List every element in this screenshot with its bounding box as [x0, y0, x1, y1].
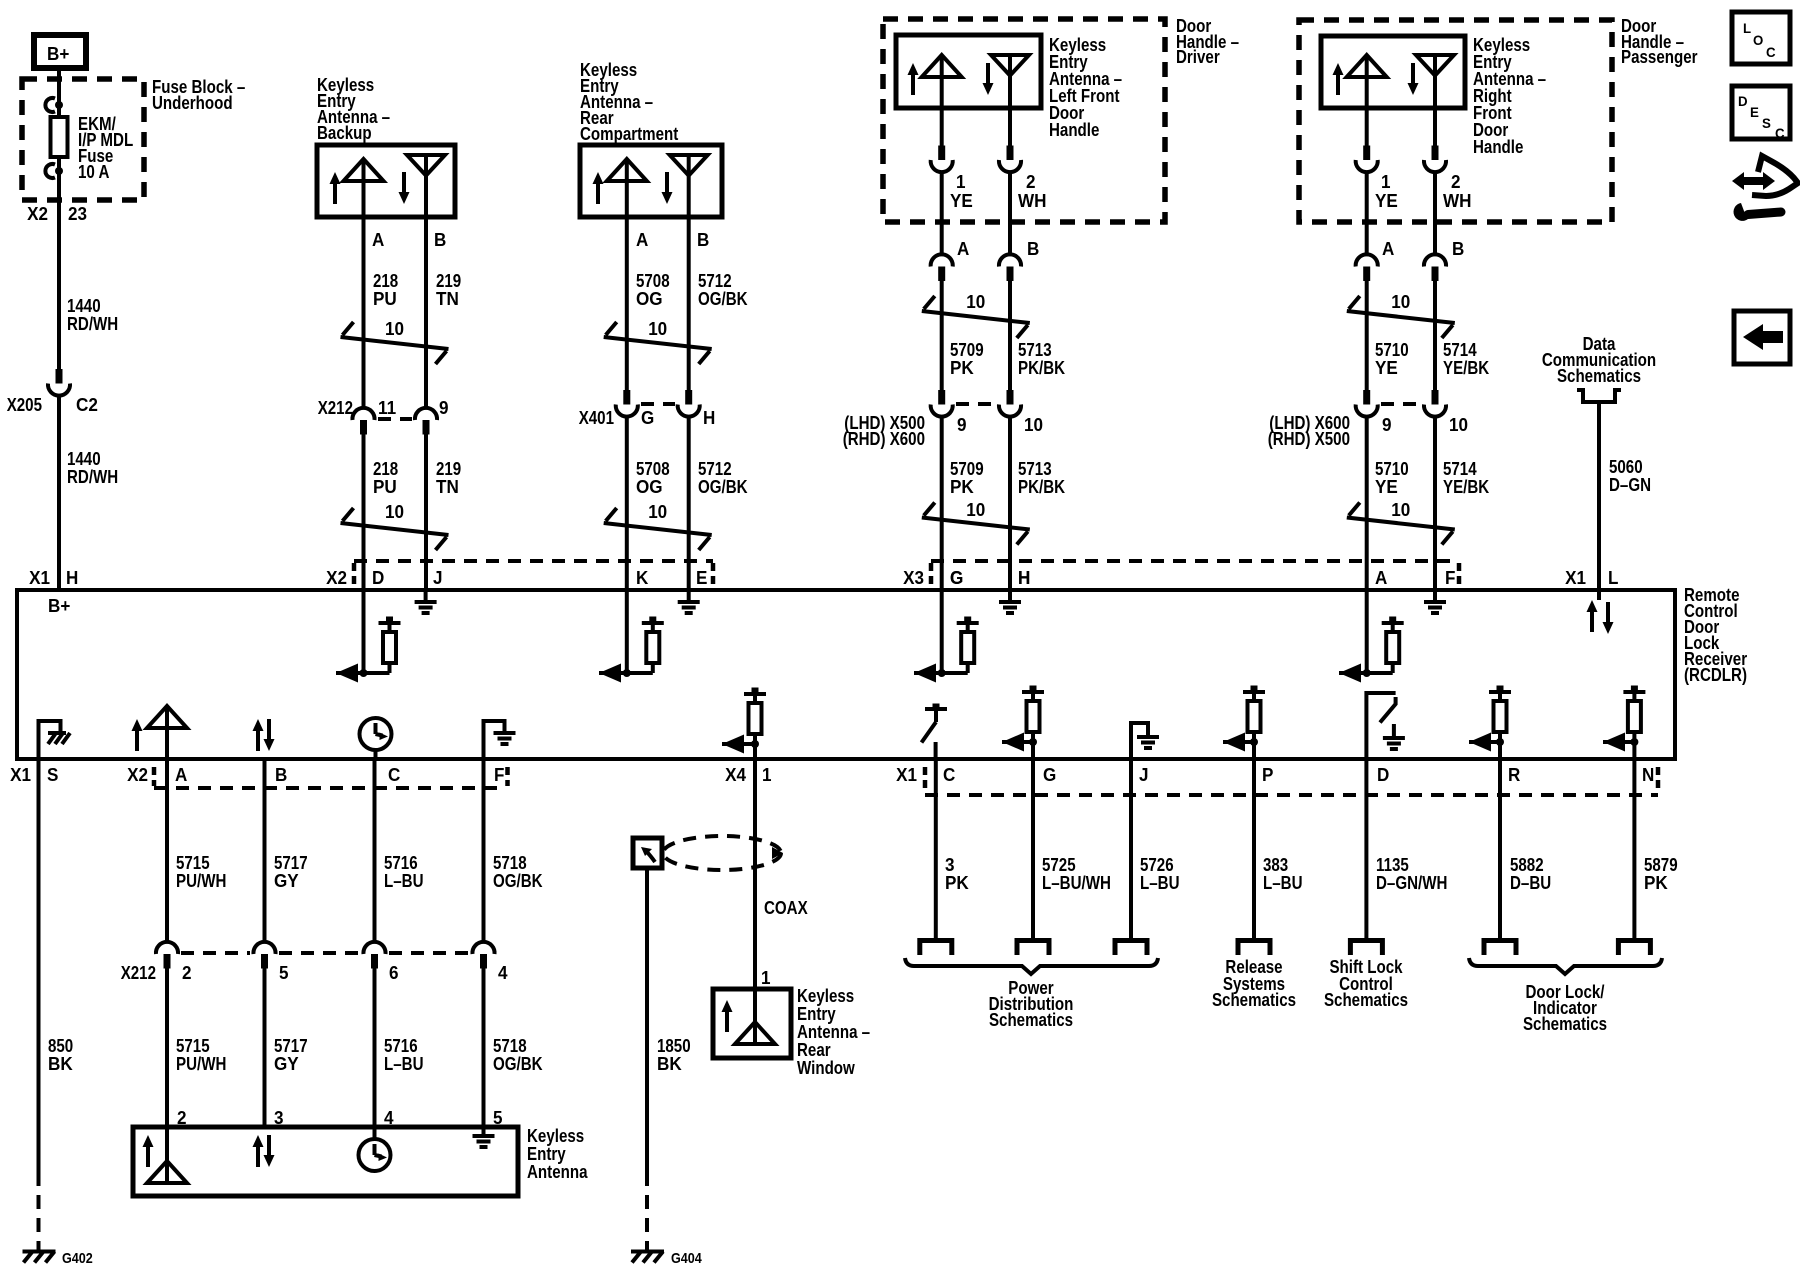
- svg-text:1: 1: [1381, 172, 1391, 192]
- svg-text:X4: X4: [725, 765, 746, 785]
- wire 219 TN: [424, 217, 428, 409]
- svg-text:GY: GY: [274, 1054, 299, 1074]
- svg-text:L: L: [1608, 568, 1618, 588]
- wire label 850 BK: [48, 1036, 73, 1074]
- svg-text:G404: G404: [671, 1250, 702, 1267]
- svg-text:Antenna –: Antenna –: [797, 1022, 870, 1042]
- svg-text:X1: X1: [29, 568, 50, 588]
- coax shield dashed ellipse: [663, 836, 783, 870]
- pin label X1 L: [1565, 568, 1618, 588]
- door handle driver dashed box: [883, 19, 1165, 222]
- fuse block name label: [152, 77, 245, 113]
- wire label 3 PK: [945, 855, 969, 893]
- svg-text:OG: OG: [636, 477, 663, 497]
- internal switch to ground at pin D: [1366, 693, 1405, 759]
- wire color labels YE WH: [950, 191, 1047, 211]
- antenna box pin labels 2 3 4 5: [177, 1108, 503, 1128]
- wire label 218 PU: [373, 459, 398, 497]
- svg-text:PU: PU: [373, 289, 397, 309]
- twisted pair marker 10: [922, 292, 1030, 338]
- wire label 5060 D-GN: [1609, 457, 1651, 495]
- keyless entry antenna right front door handle label: [1473, 35, 1546, 157]
- svg-text:3: 3: [945, 855, 955, 875]
- wire color labels YE WH: [1375, 191, 1472, 211]
- terminal 1135: [1350, 941, 1382, 956]
- keyless entry antenna label: [527, 1126, 588, 1182]
- svg-text:O: O: [1753, 32, 1763, 48]
- svg-text:Schematics: Schematics: [1523, 1014, 1607, 1034]
- keyless entry antenna rear window label: [797, 986, 870, 1078]
- svg-text:Schematics: Schematics: [989, 1010, 1073, 1030]
- svg-text:G: G: [641, 408, 654, 428]
- pin label X1 H: [29, 568, 78, 588]
- svg-text:X1: X1: [1565, 568, 1586, 588]
- svg-text:B: B: [275, 765, 287, 785]
- pin labels A F: [1375, 568, 1455, 588]
- svg-text:L–BU: L–BU: [1263, 873, 1303, 893]
- svg-text:10: 10: [385, 502, 404, 522]
- wire label 1440 RD/WH: [67, 296, 118, 334]
- svg-text:L–BU: L–BU: [384, 1054, 424, 1074]
- svg-text:X401: X401: [579, 408, 614, 428]
- wire 2 WH: [1008, 108, 1012, 147]
- svg-text:OG/BK: OG/BK: [698, 477, 748, 497]
- svg-text:4: 4: [498, 963, 508, 983]
- data communication schematics label: [1542, 334, 1656, 386]
- receive antenna symbol: [407, 155, 445, 217]
- wire label 5718 OG/BK: [493, 853, 543, 891]
- svg-text:TN: TN: [436, 477, 459, 497]
- svg-text:5717: 5717: [274, 1036, 308, 1056]
- transmit arrow: [908, 63, 919, 95]
- svg-text:PK/BK: PK/BK: [1018, 477, 1065, 497]
- svg-text:A: A: [175, 765, 187, 785]
- svg-text:S: S: [47, 765, 58, 785]
- svg-text:Compartment: Compartment: [580, 124, 678, 144]
- svg-text:10: 10: [385, 319, 404, 339]
- svg-text:BK: BK: [48, 1054, 73, 1074]
- svg-text:PU/WH: PU/WH: [176, 871, 226, 891]
- svg-text:2: 2: [1451, 172, 1461, 192]
- svg-text:A: A: [372, 230, 384, 250]
- svg-text:B: B: [697, 230, 709, 250]
- wire label 5882 D-BU: [1510, 855, 1551, 893]
- internal transmit antenna at pin A: [132, 706, 188, 759]
- svg-text:5714: 5714: [1443, 459, 1477, 479]
- bottom pin labels X2 A B C F: [127, 765, 504, 785]
- svg-text:COAX: COAX: [764, 898, 808, 918]
- svg-text:X2: X2: [127, 765, 148, 785]
- wire 5715 PU/WH: [165, 759, 169, 943]
- svg-text:10: 10: [1449, 415, 1468, 435]
- svg-text:E: E: [696, 568, 707, 588]
- wire label 5713 PK/BK: [1018, 340, 1065, 378]
- svg-text:10: 10: [1024, 415, 1043, 435]
- schematic usage icon: [1732, 156, 1798, 221]
- wire label 5716 L-BU: [384, 853, 424, 891]
- wire 5708 OG: [625, 217, 629, 391]
- svg-text:Schematics: Schematics: [1324, 990, 1408, 1010]
- svg-text:B+: B+: [48, 596, 70, 616]
- svg-text:YE/BK: YE/BK: [1443, 477, 1489, 497]
- svg-text:10: 10: [966, 292, 985, 312]
- svg-text:1: 1: [761, 968, 771, 988]
- svg-text:X205: X205: [7, 395, 42, 415]
- svg-text:H: H: [703, 408, 715, 428]
- svg-text:G402: G402: [62, 1250, 93, 1267]
- wire label 5715 PU/WH: [176, 1036, 226, 1074]
- twisted pair marker 10: [341, 319, 449, 364]
- internal clock at pin C: [360, 718, 392, 759]
- svg-text:E: E: [1750, 104, 1759, 120]
- wire label 5718 OG/BK: [493, 1036, 543, 1074]
- wire label 5708 OG: [636, 459, 670, 497]
- connector A B: [1356, 239, 1465, 281]
- wire 383 L-BU: [1252, 759, 1256, 938]
- svg-text:9: 9: [1382, 415, 1392, 435]
- transmit antenna symbol: [922, 55, 962, 108]
- keyless entry antenna box: [133, 1127, 518, 1196]
- wire 5726 L-BU: [1129, 759, 1133, 938]
- bottom pin labels X1 S: [10, 765, 58, 785]
- wire label 5714 YE/BK: [1443, 459, 1489, 497]
- pin labels X3 G H A F: [903, 568, 1030, 588]
- svg-text:C: C: [1775, 125, 1785, 141]
- svg-text:10: 10: [648, 319, 667, 339]
- transmit arrow: [1333, 63, 1344, 95]
- svg-text:Passenger: Passenger: [1621, 47, 1698, 67]
- keyless entry antenna backup label: [317, 75, 390, 143]
- svg-text:1: 1: [956, 172, 966, 192]
- svg-text:Handle: Handle: [1473, 137, 1523, 157]
- wire label 5710 YE: [1375, 459, 1409, 497]
- wire label 5716 L-BU: [384, 1036, 424, 1074]
- wire label 5717 GY: [274, 853, 308, 891]
- svg-text:L–BU: L–BU: [1140, 873, 1180, 893]
- svg-text:D: D: [372, 568, 384, 588]
- twisted pair marker 10: [1347, 500, 1455, 545]
- svg-text:C: C: [1766, 44, 1776, 60]
- wire label 5717 GY: [274, 1036, 308, 1074]
- svg-text:Entry: Entry: [527, 1144, 566, 1164]
- LOC navigation box: [1732, 12, 1790, 64]
- svg-text:J: J: [433, 568, 443, 588]
- svg-text:218: 218: [373, 459, 398, 479]
- svg-text:5718: 5718: [493, 853, 527, 873]
- keyless entry antenna left front door handle label: [1049, 35, 1122, 140]
- svg-text:Antenna: Antenna: [527, 1162, 588, 1182]
- svg-text:X2: X2: [326, 568, 347, 588]
- svg-text:10: 10: [1391, 500, 1410, 520]
- connector A B: [931, 239, 1040, 281]
- svg-text:L–BU: L–BU: [384, 871, 424, 891]
- svg-text:218: 218: [373, 271, 398, 291]
- svg-text:N: N: [1642, 765, 1654, 785]
- svg-text:5060: 5060: [1609, 457, 1643, 477]
- DESC navigation box: [1732, 86, 1790, 141]
- keyless entry antenna right front door handle box: [1321, 36, 1465, 108]
- connector pins 1 2: [931, 146, 1036, 193]
- wire label 5714 YE/BK: [1443, 340, 1489, 378]
- svg-text:Handle: Handle: [1049, 120, 1099, 140]
- dashed connector group X3 top: [931, 561, 1459, 585]
- wire 850 BK: [37, 759, 41, 1250]
- svg-text:D: D: [1738, 93, 1748, 109]
- svg-text:5712: 5712: [698, 271, 732, 291]
- svg-text:(RCDLR): (RCDLR): [1684, 665, 1747, 685]
- svg-text:B+: B+: [47, 44, 69, 64]
- svg-text:A: A: [1375, 568, 1387, 588]
- door handle passenger label: [1621, 16, 1698, 67]
- keyless entry antenna rear compartment label: [580, 60, 678, 144]
- svg-text:PU: PU: [373, 477, 397, 497]
- wire 5879 PK: [1632, 759, 1636, 938]
- svg-text:D–BU: D–BU: [1510, 873, 1551, 893]
- svg-text:C2: C2: [76, 395, 98, 415]
- keyless entry antenna left front door handle box: [896, 35, 1041, 108]
- wire label 5725 L-BU/WH: [1042, 855, 1111, 893]
- svg-text:23: 23: [68, 204, 87, 224]
- connector X212 bottom pins 2 5 6 4: [121, 942, 508, 983]
- svg-text:RD/WH: RD/WH: [67, 467, 118, 487]
- fuse EKM/IP MDL 10A: [45, 98, 67, 178]
- svg-text:5708: 5708: [636, 271, 670, 291]
- door lock indicator schematics label: [1523, 982, 1607, 1034]
- connector X500/X600 pins 9 10: [843, 390, 1043, 449]
- svg-text:OG/BK: OG/BK: [493, 871, 543, 891]
- svg-text:K: K: [636, 568, 648, 588]
- svg-text:5717: 5717: [274, 853, 308, 873]
- svg-text:11: 11: [378, 398, 396, 418]
- svg-text:G: G: [950, 568, 963, 588]
- svg-text:383: 383: [1263, 855, 1288, 875]
- internal pull-up resistor at pin A: [1339, 590, 1404, 683]
- receive arrow: [399, 172, 410, 204]
- svg-text:1850: 1850: [657, 1036, 691, 1056]
- svg-text:Rear: Rear: [797, 1040, 831, 1060]
- coax shield connector box: [633, 838, 662, 868]
- svg-text:5714: 5714: [1443, 340, 1477, 360]
- terminal 383: [1238, 941, 1270, 956]
- bottom pin labels X1 C G J P D R N: [896, 765, 1654, 785]
- wire label 5710 YE: [1375, 340, 1409, 378]
- door handle passenger dashed box: [1299, 20, 1612, 222]
- svg-text:5709: 5709: [950, 459, 984, 479]
- svg-text:1135: 1135: [1376, 855, 1409, 875]
- internal transceive arrows at pin B: [253, 719, 275, 751]
- svg-text:GY: GY: [274, 871, 299, 891]
- internal pull-up resistor at pin N: [1603, 686, 1645, 760]
- wire label 5879 PK: [1644, 855, 1678, 893]
- svg-text:F: F: [494, 765, 504, 785]
- svg-text:219: 219: [436, 459, 461, 479]
- wire 1 YE: [1365, 108, 1369, 147]
- internal chassis ground at pin S: [39, 721, 71, 759]
- svg-text:X2: X2: [27, 204, 48, 224]
- svg-text:B: B: [434, 230, 446, 250]
- keyless entry antenna rear compartment box: [580, 145, 722, 217]
- wire 5718 OG/BK: [482, 759, 486, 943]
- wire 5717 GY: [263, 759, 267, 943]
- svg-text:RD/WH: RD/WH: [67, 314, 118, 334]
- svg-text:5716: 5716: [384, 1036, 418, 1056]
- wire label 5715 PU/WH: [176, 853, 226, 891]
- bottom pin labels X4 1: [725, 765, 771, 785]
- svg-text:D–GN/WH: D–GN/WH: [1376, 873, 1447, 893]
- svg-text:219: 219: [436, 271, 461, 291]
- fuse value label: [78, 114, 133, 182]
- svg-text:5712: 5712: [698, 459, 732, 479]
- internal ground at pin H: [999, 590, 1021, 613]
- internal serial data arrows at pin L: [1587, 590, 1614, 634]
- internal transmit arrow: [722, 1000, 733, 1032]
- receive antenna symbol: [991, 55, 1029, 108]
- wire label 219 TN: [436, 271, 461, 309]
- svg-text:850: 850: [48, 1036, 73, 1056]
- transmit antenna symbol: [1347, 55, 1387, 108]
- twisted pair marker 10: [1347, 292, 1455, 338]
- svg-text:A: A: [636, 230, 648, 250]
- svg-text:L: L: [1743, 20, 1752, 36]
- ground G402: [23, 1250, 93, 1267]
- terminal 5879: [1618, 941, 1650, 956]
- internal ground: [473, 1127, 495, 1147]
- wire label 383 L-BU: [1263, 855, 1303, 893]
- terminal 5726: [1115, 941, 1147, 956]
- svg-text:5879: 5879: [1644, 855, 1678, 875]
- svg-text:5709: 5709: [950, 340, 984, 360]
- wire 1135 D-GN/WH: [1364, 759, 1368, 938]
- svg-text:Driver: Driver: [1176, 47, 1220, 67]
- twisted pair marker 10: [604, 319, 712, 364]
- svg-text:YE: YE: [950, 191, 973, 211]
- wire label 218 PU: [373, 271, 398, 309]
- door handle driver label: [1176, 16, 1239, 67]
- brace power distribution: [905, 958, 1158, 974]
- svg-text:5716: 5716: [384, 853, 418, 873]
- wire 5712 OG/BK: [687, 217, 691, 391]
- svg-text:P: P: [1262, 765, 1273, 785]
- svg-text:(RHD) X600: (RHD) X600: [843, 429, 925, 449]
- svg-text:A: A: [957, 239, 969, 259]
- pin labels X2 D J: [326, 568, 442, 588]
- svg-text:X1: X1: [10, 765, 31, 785]
- svg-text:Entry: Entry: [797, 1004, 836, 1024]
- terminal 5882: [1484, 941, 1516, 956]
- twisted pair marker 10: [604, 502, 712, 550]
- dashed connector group X2 bottom: [154, 767, 508, 788]
- wire label 5709 PK: [950, 459, 984, 497]
- release systems schematics label: [1212, 957, 1296, 1010]
- connector X600/X500 pins 9 10: [1268, 390, 1468, 449]
- svg-text:5725: 5725: [1042, 855, 1076, 875]
- wire 1 YE: [940, 108, 944, 147]
- svg-text:PU/WH: PU/WH: [176, 1054, 226, 1074]
- svg-text:X212: X212: [121, 963, 156, 983]
- svg-text:5713: 5713: [1018, 459, 1052, 479]
- internal ground at pin F: [1424, 590, 1446, 613]
- svg-text:1440: 1440: [67, 449, 101, 469]
- wire 1850 BK: [645, 868, 649, 1250]
- svg-text:Schematics: Schematics: [1557, 366, 1641, 386]
- internal transmit antenna: [735, 989, 775, 1044]
- svg-text:6: 6: [389, 963, 399, 983]
- svg-text:PK/BK: PK/BK: [1018, 358, 1065, 378]
- svg-text:BK: BK: [657, 1054, 682, 1074]
- svg-text:G: G: [1043, 765, 1056, 785]
- svg-text:10: 10: [966, 500, 985, 520]
- svg-text:L–BU/WH: L–BU/WH: [1042, 873, 1111, 893]
- twisted pair marker 10: [341, 502, 449, 550]
- svg-text:H: H: [1018, 568, 1030, 588]
- svg-text:R: R: [1508, 765, 1520, 785]
- wire label 219 TN: [436, 459, 461, 497]
- svg-text:YE: YE: [1375, 191, 1398, 211]
- svg-text:9: 9: [439, 398, 449, 418]
- svg-text:C: C: [388, 765, 400, 785]
- power distribution schematics label: [989, 978, 1074, 1030]
- internal transmit arrow: [143, 1135, 154, 1167]
- back arrow box: [1734, 311, 1790, 364]
- internal pull-up resistor at pin D: [336, 590, 401, 683]
- svg-text:1440: 1440: [67, 296, 101, 316]
- B+ power symbol box: [34, 35, 86, 68]
- connector X212 pins 11 9: [318, 398, 449, 435]
- RCDLR name label: [1684, 585, 1747, 685]
- svg-text:OG/BK: OG/BK: [698, 289, 748, 309]
- svg-text:H: H: [66, 568, 78, 588]
- svg-text:10: 10: [648, 502, 667, 522]
- receive arrow: [983, 63, 994, 95]
- svg-text:(RHD) X500: (RHD) X500: [1268, 429, 1350, 449]
- svg-text:1: 1: [762, 765, 772, 785]
- svg-text:F: F: [1445, 568, 1455, 588]
- svg-text:S: S: [1762, 115, 1771, 131]
- svg-text:Schematics: Schematics: [1212, 990, 1296, 1010]
- dashed connector group X1 bottom: [925, 767, 1658, 795]
- svg-text:5726: 5726: [1140, 855, 1174, 875]
- svg-text:5715: 5715: [176, 1036, 210, 1056]
- svg-text:C: C: [943, 765, 955, 785]
- wire label 1440 RD/WH: [67, 449, 118, 487]
- pin labels K E: [636, 568, 707, 588]
- svg-text:D–GN: D–GN: [1609, 475, 1651, 495]
- remote control door lock receiver box: [17, 590, 1675, 759]
- svg-text:10: 10: [1391, 292, 1410, 312]
- wire X4 coax: [753, 759, 757, 989]
- svg-text:5713: 5713: [1018, 340, 1052, 360]
- svg-text:PK: PK: [1644, 873, 1668, 893]
- svg-text:5710: 5710: [1375, 340, 1409, 360]
- internal resistor at pin X4 1: [722, 688, 766, 760]
- svg-text:Underhood: Underhood: [152, 93, 233, 113]
- transmit arrow: [330, 172, 341, 204]
- wire label 5712 OG/BK: [698, 459, 748, 497]
- internal transceive arrows: [253, 1135, 275, 1167]
- svg-text:5708: 5708: [636, 459, 670, 479]
- svg-text:X212: X212: [318, 398, 353, 418]
- shift lock control schematics label: [1324, 957, 1408, 1010]
- svg-text:OG: OG: [636, 289, 663, 309]
- connector pins 1 2: [1356, 146, 1461, 193]
- svg-text:B: B: [1027, 239, 1039, 259]
- wire 3 PK: [934, 759, 938, 938]
- svg-text:5882: 5882: [1510, 855, 1544, 875]
- svg-text:OG/BK: OG/BK: [493, 1054, 543, 1074]
- internal ground bracket at pin J (X1): [1131, 723, 1159, 759]
- brace door lock: [1469, 958, 1662, 974]
- wire label 5709 PK: [950, 340, 984, 378]
